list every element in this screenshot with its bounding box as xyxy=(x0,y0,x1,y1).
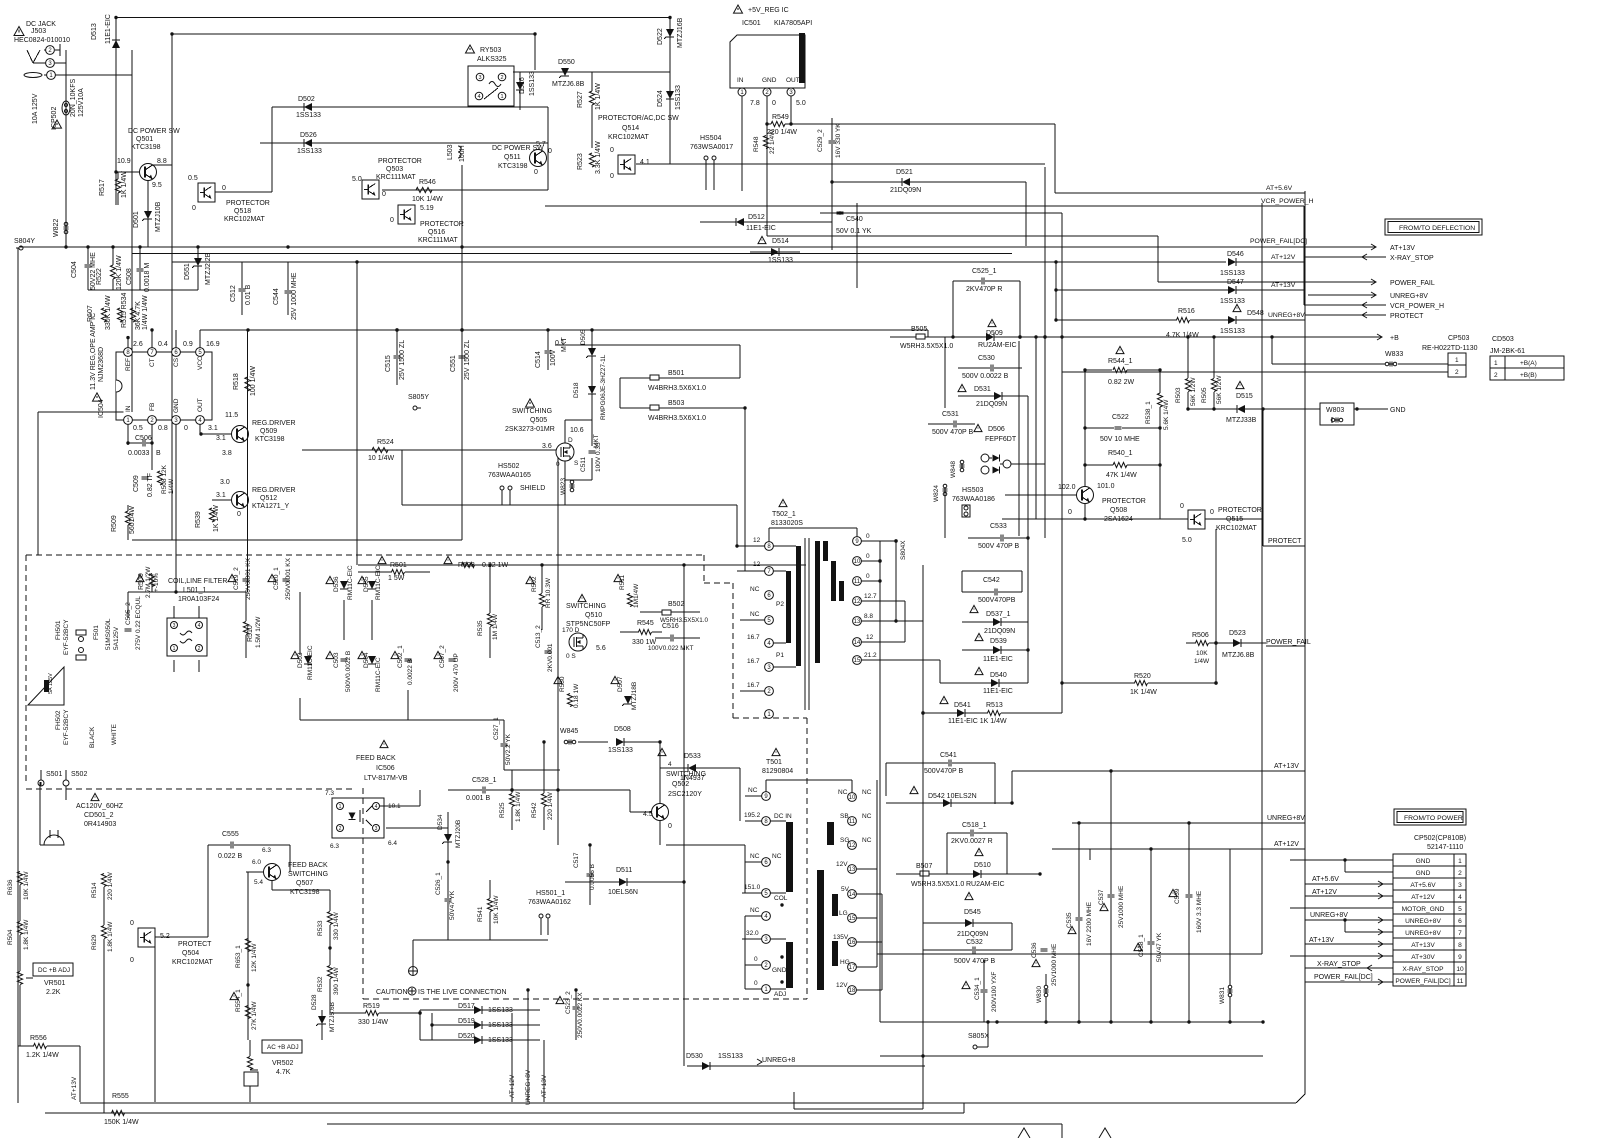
wire q508 row xyxy=(1002,518,1188,520)
svg-text:0.0022 B: 0.0022 B xyxy=(407,659,414,685)
svg-text:16V 330 YK: 16V 330 YK xyxy=(835,123,842,158)
svg-text:C532: C532 xyxy=(966,939,983,946)
wire T501 pin wires xyxy=(742,796,882,990)
svg-text:C535: C535 xyxy=(1066,912,1073,928)
svg-text:16: 16 xyxy=(849,940,856,946)
ic IC501 xyxy=(730,5,812,236)
svg-text:S804X: S804X xyxy=(900,540,907,560)
svg-text:D541: D541 xyxy=(954,702,971,709)
wire D546 col xyxy=(856,203,858,288)
svg-text:C503: C503 xyxy=(333,652,340,668)
svg-text:15: 15 xyxy=(854,658,861,664)
svg-text:11E1-EIC 1K 1/4W: 11E1-EIC 1K 1/4W xyxy=(948,718,1007,725)
capacitor C531 xyxy=(928,411,975,436)
wire row X-RAY_STOP xyxy=(1305,254,1434,262)
resistor R525 xyxy=(499,770,522,830)
svg-text:HS503: HS503 xyxy=(962,487,984,494)
svg-text:5.6: 5.6 xyxy=(596,645,606,652)
diode D534 xyxy=(437,812,462,862)
wire right border xyxy=(1304,191,1306,1094)
node S502 xyxy=(63,771,87,786)
svg-text:R541: R541 xyxy=(477,906,484,922)
svg-text:11.3V REG,OPE AMP IC: 11.3V REG,OPE AMP IC xyxy=(90,313,97,390)
svg-text:UNREG+8V: UNREG+8V xyxy=(1268,312,1305,319)
svg-text:REG.DRIVER: REG.DRIVER xyxy=(252,487,296,494)
resistor R555 xyxy=(104,1093,139,1126)
transformer T501 label xyxy=(762,748,793,775)
wire row PROTECT xyxy=(1305,312,1424,320)
svg-text:16.9: 16.9 xyxy=(206,341,220,348)
svg-text:MTZJ5.6B: MTZJ5.6B xyxy=(329,1002,336,1032)
svg-text:AT+13V: AT+13V xyxy=(1390,245,1415,252)
svg-text:B507: B507 xyxy=(916,863,932,870)
svg-text:330 1/4W: 330 1/4W xyxy=(333,911,340,940)
svg-text:MTZJ6.8B: MTZJ6.8B xyxy=(1222,652,1255,659)
svg-text:2.6: 2.6 xyxy=(133,341,143,348)
svg-text:51MS050L: 51MS050L xyxy=(105,618,112,650)
svg-text:C531: C531 xyxy=(942,411,959,418)
bead B503 xyxy=(620,400,747,422)
svg-text:1/4W: 1/4W xyxy=(1194,658,1210,665)
resistor R503 xyxy=(1175,335,1197,410)
diode D522 xyxy=(657,17,684,48)
wire q504 bottom xyxy=(20,885,155,1113)
svg-text:AT+13V: AT+13V xyxy=(1271,282,1296,289)
wire at56 row xyxy=(1055,185,1305,193)
svg-text:500V 470P B: 500V 470P B xyxy=(932,429,973,436)
node S501 xyxy=(38,771,62,786)
svg-text:10.6: 10.6 xyxy=(570,427,584,434)
capacitor C503 xyxy=(326,651,352,692)
wire row770 xyxy=(504,769,560,771)
svg-text:Q507: Q507 xyxy=(296,880,313,887)
svg-text:2SC2120Y: 2SC2120Y xyxy=(668,791,702,798)
svg-text:NC: NC xyxy=(862,813,872,820)
svg-text:UNREG+8V: UNREG+8V xyxy=(1405,918,1441,925)
svg-text:3.1: 3.1 xyxy=(208,425,218,432)
svg-text:BLACK: BLACK xyxy=(89,726,96,748)
diode D512 xyxy=(700,214,776,232)
svg-text:D513: D513 xyxy=(91,23,98,40)
svg-text:R533: R533 xyxy=(317,920,324,936)
svg-text:0: 0 xyxy=(382,191,386,198)
svg-text:MTZJ10B: MTZJ10B xyxy=(155,201,162,232)
transformer T502 label xyxy=(771,499,803,527)
resistor R533 xyxy=(317,890,340,948)
svg-text:KRC111MAT: KRC111MAT xyxy=(376,174,416,181)
capacitor C527 xyxy=(493,717,512,770)
svg-text:8.8: 8.8 xyxy=(864,613,873,620)
svg-text:L503: L503 xyxy=(447,144,454,160)
svg-text:18: 18 xyxy=(849,988,856,994)
svg-text:330 1/4W: 330 1/4W xyxy=(358,1019,388,1026)
svg-text:C511: C511 xyxy=(580,457,587,472)
capacitor C532 xyxy=(923,923,1012,965)
wire x896 col xyxy=(895,541,897,621)
capacitor C505 xyxy=(125,596,143,650)
svg-text:PROTECT: PROTECT xyxy=(178,941,212,948)
svg-text:3.8: 3.8 xyxy=(222,450,232,457)
svg-text:PROTECTOR/AC,DC SW: PROTECTOR/AC,DC SW xyxy=(598,115,679,122)
resistor R544 xyxy=(1083,346,1161,386)
diode D545 xyxy=(923,892,1012,938)
svg-text:D519: D519 xyxy=(458,1018,475,1025)
svg-text:500V470P B: 500V470P B xyxy=(924,768,964,775)
svg-text:D523: D523 xyxy=(1229,630,1246,637)
svg-text:10.1: 10.1 xyxy=(388,803,401,810)
svg-text:1.8K 1/4W: 1.8K 1/4W xyxy=(107,921,114,952)
svg-text:3.1: 3.1 xyxy=(216,435,226,442)
transistor Q518 xyxy=(188,143,272,223)
svg-text:IC501: IC501 xyxy=(742,20,761,27)
svg-text:C504: C504 xyxy=(71,261,78,278)
wire gnd236 row xyxy=(767,236,1158,282)
text POWER_FAIL DC xyxy=(1250,238,1307,245)
dashed boundary bottom xyxy=(363,998,807,1000)
node S805Y xyxy=(408,394,429,410)
diode D507 xyxy=(611,676,638,710)
svg-text:36K 4.7K: 36K 4.7K xyxy=(135,301,142,330)
svg-text:170 D: 170 D xyxy=(562,627,580,634)
svg-text:KTC3198: KTC3198 xyxy=(255,436,285,443)
wire c555 drop xyxy=(289,845,291,872)
wire Q514 out xyxy=(636,163,1045,165)
svg-text:GND: GND xyxy=(772,967,787,974)
svg-text:Q501: Q501 xyxy=(136,136,153,143)
svg-text:1: 1 xyxy=(339,804,342,810)
resistor R508 xyxy=(157,464,175,494)
svg-text:0: 0 xyxy=(1068,509,1072,516)
wire border chamfer xyxy=(1296,1094,1305,1103)
transformer T502 right pins xyxy=(853,533,877,664)
svg-text:D528: D528 xyxy=(311,994,318,1010)
svg-text:0.5: 0.5 xyxy=(133,425,143,432)
svg-text:C527_1: C527_1 xyxy=(493,717,500,740)
transistor Q507 xyxy=(246,859,328,896)
resistor R500 xyxy=(136,566,160,598)
svg-text:D526: D526 xyxy=(300,132,317,139)
resistor R629 xyxy=(91,921,114,952)
svg-text:R502: R502 xyxy=(531,576,538,592)
svg-text:B505: B505 xyxy=(911,326,927,333)
capacitor C514 xyxy=(535,330,568,370)
wire x357 col xyxy=(356,262,358,565)
wire junction dots xyxy=(64,16,1264,1058)
wire d508 to d533 xyxy=(659,742,661,768)
svg-text:C541: C541 xyxy=(940,752,957,759)
svg-text:D521: D521 xyxy=(896,169,913,176)
svg-text:1/4W 1/4W: 1/4W 1/4W xyxy=(142,295,149,330)
svg-text:0: 0 xyxy=(556,461,560,468)
wire r555 up xyxy=(963,1103,965,1113)
svg-text:D506: D506 xyxy=(988,426,1005,433)
svg-text:D508: D508 xyxy=(614,726,631,733)
svg-text:21DQ09N: 21DQ09N xyxy=(957,931,988,938)
wire bus3 xyxy=(172,261,1226,263)
transistor Q516 xyxy=(390,205,464,244)
svg-text:R535: R535 xyxy=(477,620,484,636)
fuse FH501 xyxy=(55,619,70,655)
connector J503 pins xyxy=(24,44,66,79)
svg-text:GND: GND xyxy=(1416,858,1431,865)
capacitor C519 xyxy=(228,557,252,600)
svg-text:D531: D531 xyxy=(974,386,991,393)
svg-text:FB: FB xyxy=(149,403,156,411)
transformer T502 left windings xyxy=(773,546,801,667)
svg-text:2: 2 xyxy=(500,75,503,81)
wire r520 up xyxy=(1214,529,1217,685)
wire cp502 at12 xyxy=(1305,889,1393,899)
svg-text:R555: R555 xyxy=(112,1093,129,1100)
svg-text:D507: D507 xyxy=(617,676,624,692)
svg-text:0.82 TF: 0.82 TF xyxy=(147,473,154,497)
node S804X xyxy=(900,540,907,642)
svg-text:0.22 1W: 0.22 1W xyxy=(482,562,508,569)
svg-text:4: 4 xyxy=(1458,894,1462,901)
wire x1045 col xyxy=(1044,167,1046,538)
svg-text:IC504: IC504 xyxy=(98,399,105,418)
svg-text:500V 470P B: 500V 470P B xyxy=(978,543,1019,550)
svg-text:52147-1110: 52147-1110 xyxy=(1427,844,1463,851)
svg-text:C528_1: C528_1 xyxy=(472,777,497,784)
svg-text:LG: LG xyxy=(839,910,848,917)
svg-text:2KV0.001: 2KV0.001 xyxy=(547,643,554,672)
transformer T501 right windings xyxy=(817,822,838,990)
svg-text:AT+13V: AT+13V xyxy=(1309,937,1334,944)
svg-text:150K 1/4W: 150K 1/4W xyxy=(104,1119,139,1126)
svg-text:W803: W803 xyxy=(1326,407,1344,414)
svg-text:0: 0 xyxy=(610,147,614,154)
svg-text:C513_2: C513_2 xyxy=(535,625,542,648)
wire x1262 col xyxy=(1261,203,1263,954)
resistor R549 xyxy=(765,114,797,136)
svg-text:D537_1: D537_1 xyxy=(986,611,1011,618)
svg-text:0 S: 0 S xyxy=(566,653,576,660)
svg-text:R519: R519 xyxy=(363,1003,380,1010)
wire t501 gnd col xyxy=(744,916,746,989)
svg-text:HEC0824-010010: HEC0824-010010 xyxy=(14,37,70,44)
svg-text:0: 0 xyxy=(222,185,226,192)
svg-text:W822: W822 xyxy=(53,219,60,237)
svg-text:DC JACK: DC JACK xyxy=(26,21,56,28)
svg-text:5.7: 5.7 xyxy=(536,141,546,148)
svg-text:8133020S: 8133020S xyxy=(771,520,803,527)
node W823 xyxy=(560,478,575,495)
svg-text:D518: D518 xyxy=(573,382,580,398)
node W831 xyxy=(1219,849,1233,1022)
svg-text:4: 4 xyxy=(477,94,480,100)
svg-text:200V 470 UP: 200V 470 UP xyxy=(453,653,460,692)
svg-text:CP502(CP810B): CP502(CP810B) xyxy=(1414,835,1466,842)
svg-text:D536: D536 xyxy=(333,576,340,592)
diode D501 xyxy=(133,181,162,247)
wire jack col xyxy=(131,50,133,412)
svg-text:1SS133: 1SS133 xyxy=(1220,328,1245,335)
wire x1036 col xyxy=(1035,337,1037,519)
svg-text:250V0.0022 KX: 250V0.0022 KX xyxy=(577,992,584,1038)
svg-text:7.8: 7.8 xyxy=(750,100,760,107)
svg-text:390 1/4W: 390 1/4W xyxy=(333,966,340,995)
svg-text:R518: R518 xyxy=(233,373,240,390)
svg-text:C502_1: C502_1 xyxy=(397,645,404,668)
svg-text:0R414903: 0R414903 xyxy=(84,821,116,828)
node W824 xyxy=(933,484,948,502)
svg-text:0.82 2W: 0.82 2W xyxy=(1108,379,1134,386)
svg-text:Q504: Q504 xyxy=(182,950,199,957)
svg-text:R542: R542 xyxy=(531,802,538,818)
svg-text:2: 2 xyxy=(198,646,201,652)
svg-text:0.01 B: 0.01 B xyxy=(245,284,252,305)
capacitor C534 xyxy=(962,960,998,1022)
svg-text:CD503: CD503 xyxy=(1492,336,1514,343)
svg-text:AT+5.6V: AT+5.6V xyxy=(1312,876,1339,883)
svg-text:DC POWER SW: DC POWER SW xyxy=(128,128,180,135)
bead B505 xyxy=(890,326,1038,350)
svg-text:D515: D515 xyxy=(1236,393,1253,400)
capacitor C530 xyxy=(958,355,1022,380)
capacitor C540 xyxy=(836,211,872,235)
dashed boundary jog2 xyxy=(704,582,733,584)
svg-text:5601/4W: 5601/4W xyxy=(129,506,136,534)
svg-text:1M1/4W: 1M1/4W xyxy=(633,583,640,608)
svg-text:R538_1: R538_1 xyxy=(1145,401,1152,424)
box FROM-TO POWER xyxy=(1394,809,1466,825)
svg-text:PROTECTOR: PROTECTOR xyxy=(226,200,270,207)
capacitor C523 xyxy=(556,990,584,1040)
svg-text:C537: C537 xyxy=(1098,889,1105,905)
svg-text:56K 1/2W: 56K 1/2W xyxy=(1216,375,1223,404)
svg-text:C530: C530 xyxy=(978,355,995,362)
svg-text:3: 3 xyxy=(1458,882,1462,889)
svg-text:0.022 B: 0.022 B xyxy=(218,853,242,860)
capacitor C535 xyxy=(1066,823,1093,1022)
wire cp502 motor xyxy=(1290,907,1393,909)
transistor Q509 xyxy=(199,412,295,457)
svg-text:2: 2 xyxy=(1494,372,1498,379)
svg-text:R508 12K: R508 12K xyxy=(161,464,168,494)
svg-text:FEED BACK: FEED BACK xyxy=(356,755,396,762)
wire R546 row xyxy=(382,189,548,191)
transformer T502 core xyxy=(805,538,809,710)
resistor R527 xyxy=(577,72,602,148)
svg-text:2KV470P R: 2KV470P R xyxy=(966,286,1002,293)
svg-text:1M 1/4W: 1M 1/4W xyxy=(492,613,499,640)
svg-text:D551: D551 xyxy=(184,263,191,280)
transformer T502 left pins xyxy=(747,537,784,718)
resistor R541 xyxy=(477,880,500,940)
svg-text:3.3K 1/4W: 3.3K 1/4W xyxy=(595,141,602,174)
wire vcr row xyxy=(545,198,1314,305)
wire d533 to t501 xyxy=(739,768,741,821)
svg-text:1SS133: 1SS133 xyxy=(768,257,793,264)
svg-text:2: 2 xyxy=(339,826,342,832)
svg-text:HS501_1: HS501_1 xyxy=(536,890,565,897)
svg-text:10K 1/4W: 10K 1/4W xyxy=(493,895,500,924)
svg-text:200V100 YXF: 200V100 YXF xyxy=(991,972,998,1012)
capacitor C522 xyxy=(1083,414,1161,443)
svg-text:0: 0 xyxy=(237,511,241,518)
svg-text:0: 0 xyxy=(130,957,134,964)
wire cp502 xray xyxy=(1305,961,1393,971)
svg-text:NC: NC xyxy=(862,789,872,796)
connector CD503 xyxy=(1490,336,1564,380)
svg-text:Q510: Q510 xyxy=(585,612,602,619)
wire q501 base xyxy=(114,170,139,173)
wire live bus xyxy=(413,940,548,966)
svg-text:3.6: 3.6 xyxy=(542,443,552,450)
svg-text:12: 12 xyxy=(849,843,856,849)
svg-text:0: 0 xyxy=(390,217,394,224)
capacitor C538 xyxy=(1134,849,1163,1022)
capacitor C536 xyxy=(1031,942,1058,986)
wire x248 col xyxy=(247,330,249,592)
wire cp502 pfail xyxy=(1305,974,1393,985)
svg-text:AT+12V: AT+12V xyxy=(1271,254,1296,261)
svg-text:7.3: 7.3 xyxy=(325,790,334,797)
svg-text:D530: D530 xyxy=(686,1053,703,1060)
svg-text:6: 6 xyxy=(1458,918,1462,925)
wire row POWER_FAIL xyxy=(1158,279,1435,287)
wire ic504 in left xyxy=(38,412,124,555)
svg-text:102.0: 102.0 xyxy=(1058,484,1076,491)
svg-text:RR 10.3W: RR 10.3W xyxy=(545,577,552,608)
resistor R554 xyxy=(230,985,258,1040)
diode D509 xyxy=(978,319,1047,349)
svg-text:AT+12V: AT+12V xyxy=(1411,894,1435,901)
svg-text:S: S xyxy=(574,460,579,467)
ic IC504 top pins xyxy=(124,341,220,371)
dashed boundary jog3 xyxy=(733,717,807,719)
svg-text:10ELS6N: 10ELS6N xyxy=(608,889,638,896)
capacitor C512 xyxy=(230,262,252,315)
svg-text:POWER_FAIL: POWER_FAIL xyxy=(1390,280,1435,287)
svg-text:AT+12V: AT+12V xyxy=(1312,889,1337,896)
resistor R504 xyxy=(7,919,30,950)
wire top bus xyxy=(116,17,670,19)
wire icp col xyxy=(65,60,67,247)
svg-text:OUT: OUT xyxy=(786,77,800,84)
svg-text:14: 14 xyxy=(849,892,856,898)
node W830 xyxy=(1036,974,1049,1022)
svg-text:Q508: Q508 xyxy=(1110,507,1127,514)
svg-text:10 1/4W: 10 1/4W xyxy=(368,455,394,462)
wire vcc drop xyxy=(927,330,929,337)
bead B502 xyxy=(640,601,708,624)
wire x548 col xyxy=(547,107,549,190)
svg-text:MTZJ6.8B: MTZJ6.8B xyxy=(552,81,585,88)
wire x1028 col xyxy=(1027,396,1029,683)
svg-text:500V470PB: 500V470PB xyxy=(978,597,1016,604)
svg-text:DC +B ADJ: DC +B ADJ xyxy=(38,967,70,974)
text Q505 xyxy=(505,399,555,433)
wire T501 right bus1 xyxy=(876,780,878,967)
connector HS501 xyxy=(528,890,571,935)
svg-text:AT+13V: AT+13V xyxy=(1411,942,1435,949)
svg-text:T501: T501 xyxy=(766,759,782,766)
wire x670 col xyxy=(669,18,671,165)
svg-text:SHIELD: SHIELD xyxy=(520,485,545,492)
wire x684 col xyxy=(683,565,685,1066)
capacitor C508 xyxy=(126,248,151,293)
svg-text:R530: R530 xyxy=(559,676,566,692)
svg-text:GND: GND xyxy=(1390,407,1406,414)
svg-text:C540: C540 xyxy=(846,216,863,223)
svg-text:T502_1: T502_1 xyxy=(772,511,796,518)
wire border bottom xyxy=(80,1102,1296,1104)
svg-text:15: 15 xyxy=(849,916,856,922)
wire x880 col xyxy=(879,541,881,1022)
svg-text:0: 0 xyxy=(668,823,672,830)
